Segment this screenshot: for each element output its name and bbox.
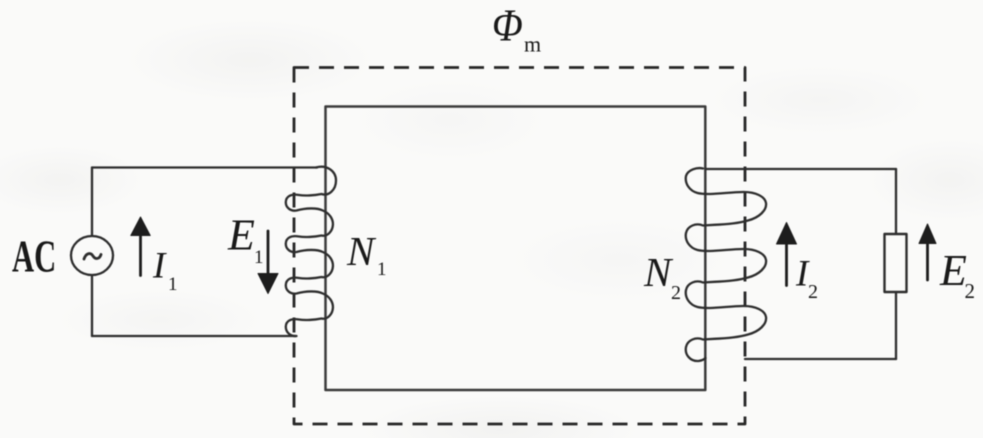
svg-text:2: 2 [965, 279, 976, 303]
svg-text:Φ: Φ [492, 0, 523, 51]
transformer core [326, 107, 706, 391]
emf arrow E1 (down) [258, 231, 278, 294]
label E2 [939, 246, 975, 303]
svg-text:1: 1 [377, 259, 387, 280]
label I1 [152, 246, 178, 296]
AC source circle [71, 236, 113, 275]
wire: right circuit bottom [745, 358, 896, 360]
wire: right circuit right vertical lower [895, 292, 897, 359]
AC source tilde [84, 254, 101, 259]
wire: left circuit left vertical lower [91, 276, 93, 337]
label N1 [346, 228, 387, 280]
svg-text:m: m [524, 32, 541, 57]
wire: right circuit top [706, 168, 896, 170]
label I2 [795, 254, 818, 304]
svg-text:E: E [227, 211, 255, 260]
svg-text:2: 2 [671, 282, 681, 304]
winding N2 (secondary coil) [686, 168, 766, 361]
load resistor [885, 234, 907, 292]
svg-text:N: N [643, 249, 674, 295]
label E1 [227, 211, 264, 269]
svg-text:E: E [939, 246, 967, 295]
wire: right circuit right vertical upper [895, 169, 897, 234]
wire: left circuit top [92, 166, 317, 168]
winding N1 (primary coil) [286, 167, 336, 336]
svg-text:N: N [346, 228, 377, 274]
svg-text:1: 1 [168, 274, 178, 295]
current arrow I2 [777, 223, 797, 286]
emf arrow E2 [919, 224, 936, 280]
label N2 [643, 249, 681, 304]
svg-text:1: 1 [254, 247, 264, 268]
label Phi_m (flux) [492, 0, 541, 56]
flux path dashed box [294, 68, 745, 425]
svg-text:AC: AC [12, 233, 56, 282]
svg-text:2: 2 [808, 281, 818, 303]
wire: left circuit left vertical upper [91, 168, 93, 236]
wire: left circuit bottom [92, 335, 296, 337]
current arrow I1 [131, 217, 150, 276]
svg-text:I: I [152, 246, 167, 287]
